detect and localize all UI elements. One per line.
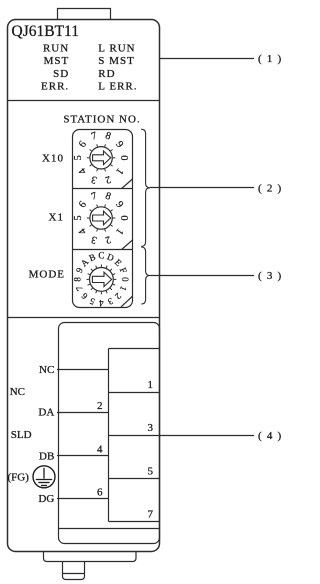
svg-text:MODE: MODE (29, 269, 65, 281)
svg-text:S MST: S MST (98, 55, 135, 67)
switch block outline (73, 130, 133, 308)
wire DG terminal 6 (57, 498, 109, 500)
svg-text:0: 0 (118, 155, 129, 160)
bottom connector tab inner line (63, 573, 85, 575)
svg-text:L RUN: L RUN (98, 43, 135, 55)
svg-text:4: 4 (97, 443, 103, 455)
bottom connector tab (63, 562, 85, 580)
svg-text:DB: DB (39, 450, 54, 462)
rotary dial X10 circle (90, 147, 112, 169)
svg-text:8: 8 (73, 277, 83, 282)
brace for callout (2) spanning X10 and X1 (141, 129, 150, 246)
svg-text:3: 3 (148, 422, 154, 434)
leader line (2) (150, 187, 254, 189)
svg-text:NC: NC (10, 386, 25, 398)
rotary dial X10 teeth (87, 144, 115, 171)
terminal strip top line (109, 348, 160, 350)
brace for callout (3) spanning MODE (141, 247, 150, 304)
rotary dial MODE arrow pointer (92, 272, 111, 286)
svg-text:2: 2 (97, 400, 103, 412)
terminal cover hinge seam (59, 528, 160, 530)
svg-text:( 1 ): ( 1 ) (258, 53, 282, 65)
divider X10/X1 (73, 188, 133, 190)
svg-text:NC: NC (39, 364, 54, 376)
rotary dial X10 digits (73, 130, 129, 185)
rotary dial X1 teeth (87, 205, 115, 232)
notch X1 corner (122, 240, 133, 250)
svg-text:STATION NO.: STATION NO. (63, 113, 140, 125)
svg-text:MST: MST (44, 55, 70, 67)
svg-text:DA: DA (38, 407, 54, 419)
rotary dial X1 arrow pointer (93, 211, 111, 225)
svg-text:SD: SD (53, 68, 69, 80)
wire DA terminal 2 (57, 412, 109, 414)
terminal divider below 1 (109, 392, 160, 394)
terminal divider below 5 (109, 478, 160, 480)
svg-text:( 2 ): ( 2 ) (258, 183, 282, 195)
rotary dial MODE teeth (87, 265, 117, 295)
svg-text:X10: X10 (42, 152, 64, 164)
rotary dial X1 digits (73, 191, 129, 246)
svg-text:QJ61BT11: QJ61BT11 (12, 23, 79, 40)
svg-text:1: 1 (148, 379, 154, 391)
rotary dial X10 arrow pointer (93, 151, 111, 165)
svg-text:RD: RD (98, 68, 115, 80)
svg-text:0: 0 (118, 215, 129, 220)
rotary dial MODE circle (90, 268, 114, 292)
svg-text:SLD: SLD (11, 429, 32, 441)
protective earth ground symbol (33, 466, 55, 488)
svg-text:C: C (98, 251, 104, 261)
divider switch/terminal sections (8, 317, 160, 319)
svg-text:0: 0 (120, 277, 130, 282)
wire DB terminal 4 (57, 455, 109, 457)
svg-text:L ERR.: L ERR. (98, 80, 137, 92)
svg-text:( 3 ): ( 3 ) (258, 270, 282, 282)
notch X10 corner (122, 179, 133, 189)
svg-text:5: 5 (73, 215, 84, 220)
svg-text:X1: X1 (49, 212, 64, 224)
module outline (8, 20, 160, 552)
leader line (1) (160, 58, 255, 60)
svg-text:5: 5 (148, 465, 154, 477)
terminal cover outline (59, 323, 160, 544)
svg-text:(FG): (FG) (8, 472, 30, 484)
wire NC terminal 1 (57, 369, 109, 371)
svg-text:( 4 ): ( 4 ) (258, 430, 282, 442)
terminal strip left vertical (108, 349, 110, 522)
leader line (3) (150, 275, 254, 277)
svg-text:DG: DG (38, 493, 54, 505)
divider X1/MODE (73, 249, 133, 251)
svg-text:5: 5 (73, 155, 84, 160)
svg-text:7: 7 (148, 508, 154, 520)
terminal strip bottom line (109, 521, 160, 523)
svg-text:RUN: RUN (43, 43, 69, 55)
notch MODE corner (121, 297, 132, 307)
leader line (4) (109, 435, 255, 437)
rotary dial X1 circle (90, 207, 112, 229)
svg-text:ERR.: ERR. (41, 80, 69, 92)
divider LED/switch sections (8, 100, 160, 102)
svg-text:6: 6 (97, 487, 103, 499)
bottom base tab (44, 552, 137, 562)
top mounting tab (58, 9, 111, 20)
svg-text:4: 4 (99, 298, 104, 308)
rotary dial MODE digits (73, 251, 131, 309)
